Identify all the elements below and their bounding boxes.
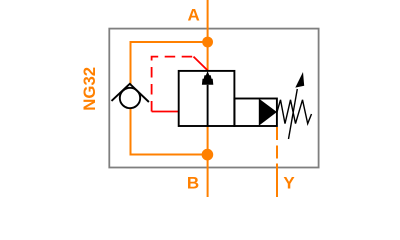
svg-text:A: A [187, 6, 199, 25]
svg-text:B: B [187, 174, 199, 193]
svg-text:Y: Y [283, 174, 295, 193]
svg-text:NG32: NG32 [80, 67, 99, 111]
